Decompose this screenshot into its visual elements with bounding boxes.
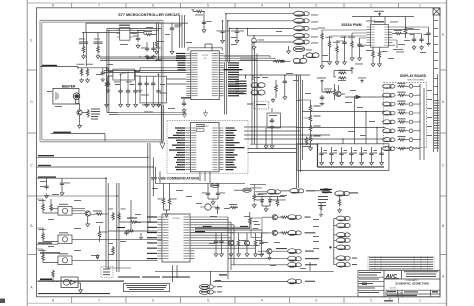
MCU inner pin text right [212, 53, 218, 96]
flag pair B [293, 58, 307, 63]
resistor R42 [333, 41, 340, 60]
right zone ticks [440, 70, 447, 255]
svg-text:ST7 USB COMMUNICATIONS: ST7 USB COMMUNICATIONS [151, 177, 200, 181]
flag QG1 [288, 249, 314, 254]
wire to pair [282, 60, 291, 62]
usb left wire stubs [180, 128, 186, 170]
usb right labels [226, 127, 245, 170]
beeper box [53, 85, 80, 105]
resistor R2 [77, 64, 85, 77]
USB IC U2 [190, 123, 219, 172]
bottom long wires [155, 262, 334, 276]
wire row4 [228, 258, 288, 260]
wire [153, 23, 157, 39]
MCU top loop wire [188, 44, 222, 51]
spare gates label [40, 252, 60, 253]
long wire w1 [303, 111, 386, 113]
transistor QC1 [228, 233, 233, 257]
net entry F_GND [37, 242, 59, 244]
net flag F3 [294, 26, 310, 31]
net entry AC_POWER [37, 176, 108, 178]
relay box [251, 218, 262, 237]
connector bar upper ticks [434, 20, 438, 95]
value specks [40, 15, 432, 269]
rev table [368, 256, 434, 270]
rail y196 [255, 197, 285, 199]
capacitor CB3 [124, 230, 133, 236]
cap pair CC3 [215, 206, 219, 215]
capacitor C45 [426, 27, 431, 46]
filter bus bar [318, 144, 385, 167]
ground C43 [412, 45, 416, 50]
svg-text:B: B [30, 224, 32, 228]
opto U7 [58, 253, 72, 264]
ground spare [78, 283, 83, 293]
logo [385, 274, 400, 280]
diode DC1 [256, 198, 264, 203]
section box ST7 USB [167, 120, 248, 173]
pwm misc text [355, 21, 404, 65]
net entry y157 [37, 155, 149, 157]
chain flag 6 [336, 256, 357, 261]
spare resistor [52, 270, 55, 282]
svg-text:A-0168: A-0168 [390, 287, 396, 290]
ground R47 [378, 62, 382, 67]
svg-text:6: 6 [152, 4, 154, 8]
display board dashed box [384, 83, 427, 148]
resistor RC5 [229, 204, 238, 209]
flag QG4 [288, 230, 316, 235]
rail y75 [237, 75, 310, 188]
resistor R40 [318, 28, 325, 65]
capacitor C41 [357, 38, 361, 56]
section box ST7 microcontroller [40, 20, 163, 142]
vcc arrow drv [351, 68, 354, 71]
capacitor CC5 [219, 233, 223, 257]
dashed opt box BL [101, 266, 113, 277]
capacitor CX1 [141, 42, 149, 58]
usb left labels [168, 127, 185, 170]
svg-text:1: 1 [419, 299, 421, 303]
flag row5 [288, 262, 317, 267]
svg-text:ST72F: ST72F [202, 55, 209, 57]
cap CF2 [329, 147, 337, 165]
junction dots rails [105, 56, 378, 197]
ground R41 [328, 60, 332, 65]
display row 1 [383, 83, 420, 89]
resistor RB9 [108, 243, 114, 255]
net AC_FAIL [51, 132, 105, 141]
MCU inner pin text left [192, 53, 198, 96]
ground ladder [309, 146, 313, 151]
resistor R47 below [378, 47, 387, 62]
ground R43 [350, 56, 354, 61]
wire bus right of box1 [159, 15, 185, 60]
spare net entry [37, 279, 62, 283]
chain flag 4 [336, 238, 350, 243]
resistor RE1 [271, 80, 277, 102]
cap CF6 [369, 147, 377, 165]
zone letters left [30, 39, 33, 290]
ground drops E2 [270, 128, 274, 149]
E text rows [236, 81, 247, 95]
resistor R23 [94, 42, 103, 54]
buffer arrow [345, 95, 386, 99]
svg-text:8: 8 [52, 4, 54, 8]
resistor RE4 [322, 84, 336, 100]
flag QG2 [288, 256, 319, 261]
vertical bus E [299, 75, 303, 188]
transistor QB1 [72, 211, 90, 216]
opto U6 [58, 232, 72, 243]
ladder top wire [299, 100, 311, 118]
wire osc out [130, 31, 144, 37]
vertical bundle [226, 14, 230, 62]
net entry y167 [37, 165, 154, 167]
rail to flag 5 [252, 41, 293, 43]
feedback ladder resistor RL2 [309, 114, 320, 123]
capacitor CR3 [133, 71, 137, 108]
svg-text:3525A PWM: 3525A PWM [341, 23, 361, 27]
resistor R6 [82, 109, 89, 118]
long wire w3 [343, 139, 386, 144]
speck CX [146, 58, 162, 61]
capacitor C12 [132, 31, 140, 42]
capacitor C40 [341, 36, 347, 60]
usb IC pin text [191, 128, 217, 170]
top zone ticks [72, 3, 399, 8]
zone numbers top [52, 4, 421, 8]
capacitor CR2 [126, 72, 135, 107]
display row 6 [383, 127, 420, 133]
arrow R22 [82, 54, 86, 59]
chain flag 1 [336, 216, 350, 221]
ground CC1 [208, 197, 218, 205]
circle comp QC0 [200, 204, 216, 210]
right connector column [434, 15, 438, 152]
resistor R3 [86, 64, 93, 77]
resistor RB1 [39, 199, 59, 213]
J labels [318, 196, 328, 206]
cap CF3 [339, 147, 347, 165]
capacitor CE2 [270, 108, 275, 129]
annotation text row [118, 276, 190, 277]
resistor RC2 [164, 183, 177, 210]
resistor RJ1 [319, 203, 322, 217]
PWM pins [367, 27, 393, 45]
wire row5 [231, 264, 288, 266]
arrow R23 [96, 54, 100, 59]
bottom zone ticks [72, 297, 399, 303]
triple bus [195, 226, 262, 230]
vcc arrow E [317, 78, 326, 85]
zone numbers bottom [52, 299, 421, 303]
top chain flag [335, 191, 358, 196]
regulator pins [108, 72, 140, 77]
display row 7 [383, 136, 420, 142]
flag QG3 [288, 215, 311, 220]
USB IC pins right [219, 128, 224, 170]
shunt ref D3 [252, 35, 264, 50]
inner bus box left [107, 29, 109, 113]
ground C1 [170, 50, 174, 55]
feedback ladder resistor RL4 [309, 100, 320, 146]
flag BC2 [234, 188, 251, 192]
net flag F1 [294, 11, 310, 16]
resistor R25 [144, 31, 153, 36]
resistor R22 [79, 42, 88, 54]
label U9 [119, 25, 130, 26]
note box [124, 284, 170, 292]
resistor RB2 [50, 199, 58, 212]
svg-text:3: 3 [315, 4, 317, 8]
chain flag 5 [336, 245, 350, 250]
junction dots center [225, 13, 248, 29]
capacitor CB1 [40, 178, 49, 198]
filter rail [250, 143, 318, 145]
capacitor C8 [144, 81, 148, 107]
resistor RD1 [338, 70, 347, 74]
net label entry [280, 60, 285, 63]
cap CF7 [379, 147, 383, 165]
ground C12 [136, 44, 140, 49]
ground R11 [139, 233, 142, 240]
feed wire left [250, 184, 266, 207]
resistor RC7 [237, 233, 246, 257]
bottom note line 2 [38, 293, 110, 294]
ground R48 [371, 62, 375, 67]
flag pair E1 [251, 83, 265, 88]
svg-text:SCHEMATIC: SCHEMATIC [406, 279, 419, 282]
corner blot bottom-left [0, 299, 5, 304]
svg-text:8: 8 [52, 299, 54, 303]
svg-text:E: E [442, 33, 444, 37]
cap CF4 [349, 147, 357, 165]
labels left of chain flag [320, 189, 332, 193]
beeper resistors text [91, 109, 100, 120]
net flag F6 [293, 46, 305, 51]
title block [358, 271, 440, 297]
MCU right wide labels [224, 69, 248, 94]
filter box [297, 144, 389, 171]
resistor R45 [392, 30, 405, 35]
capacitor CR4 [156, 74, 165, 107]
MCU U1 [191, 51, 219, 100]
MCU right net labels [228, 62, 239, 96]
resistor RB8 [118, 209, 126, 221]
driver loop box [334, 71, 352, 77]
svg-text:BEEPER: BEEPER [62, 85, 76, 89]
capacitor C20 [217, 20, 230, 43]
diode DB1 [91, 254, 99, 259]
net flag F2 [294, 18, 310, 23]
capacitor CC2 [216, 183, 225, 196]
reset box [140, 76, 167, 103]
ground drops E [264, 128, 268, 149]
wire rail y32.5 [82, 23, 120, 45]
resistor RF1 [303, 137, 311, 147]
net flag F5 [294, 40, 310, 45]
resistor R41 [326, 36, 333, 60]
display row 4 [383, 110, 420, 116]
feedback ladder resistor RL3 [309, 124, 320, 133]
chain diamond [329, 246, 332, 249]
zone letters right [442, 33, 445, 279]
wire y232.5 [190, 232, 268, 234]
text rows above diodes [258, 193, 279, 194]
cap CF1 [319, 147, 327, 165]
ground C44 [420, 45, 424, 50]
long rails left of MCU [100, 57, 186, 61]
center vertical bundle [147, 143, 155, 232]
capacitor C5 [100, 68, 105, 82]
resistor RB4 [39, 249, 59, 263]
flag row G1 [267, 189, 280, 194]
PWM IC U10 [371, 21, 389, 47]
display row 3 [383, 101, 420, 107]
resistor RB6 [98, 226, 107, 242]
ground R2 R3 [80, 78, 90, 83]
display row 5 [383, 118, 420, 124]
supply tee R C [192, 10, 212, 33]
flag pair E2 [251, 90, 265, 95]
transistor QD1 [336, 85, 345, 97]
net stub PWR entry [40, 65, 79, 69]
resistor RD2 [338, 77, 347, 81]
usb sub box [196, 124, 205, 131]
display row 2 [383, 92, 420, 98]
USB IC pins left [186, 128, 191, 170]
capacitor C44 [419, 34, 428, 43]
capacitor C21 [231, 28, 244, 43]
resistor R48 below [372, 47, 375, 62]
ground arrow near F6 [287, 46, 291, 54]
resistor R30 [273, 60, 282, 62]
diode DC2 [268, 198, 277, 203]
resistor RB5 [90, 211, 108, 216]
capacitor CC6 [259, 233, 263, 257]
page edge bottom [27, 302, 447, 304]
descending wires below MCU-right [225, 62, 227, 115]
long wire w2 [297, 127, 386, 129]
MCU right rails [224, 56, 281, 61]
capacitor CC4 [214, 233, 218, 257]
resistor RE3 [322, 84, 333, 93]
inner bus box bottom [107, 113, 118, 115]
reg output rails [104, 71, 186, 73]
capacitor CX2 [151, 42, 160, 58]
svg-text:SCHEMATIC, OZONE 750W: SCHEMATIC, OZONE 750W [395, 282, 429, 286]
svg-text:2: 2 [370, 299, 372, 303]
MCU pins right [219, 54, 224, 96]
transistor QG4 [262, 230, 289, 235]
under-frame text M2 [384, 297, 393, 302]
capacitor C1 bulk [170, 23, 182, 49]
capacitor CE3 [320, 95, 325, 106]
vcc arrow drv2 [358, 78, 366, 84]
cap CF5 [359, 147, 367, 165]
chain vertical wire [334, 219, 336, 265]
rail below box2 [155, 172, 245, 184]
capacitor CC1 [202, 183, 210, 196]
display right bus [420, 84, 424, 160]
spare IC [61, 277, 78, 288]
resistor R10 into IC [119, 218, 158, 224]
svg-text:5: 5 [207, 299, 209, 303]
wire pwr vertical [85, 33, 87, 67]
capacitor C9 [151, 81, 155, 107]
regulator IC [113, 69, 134, 80]
svg-text:2: 2 [370, 4, 372, 8]
svg-text:1: 1 [419, 4, 421, 8]
lower IC pin text [163, 217, 189, 259]
rail to flag 2 [228, 20, 293, 22]
resistor RR1 [105, 68, 109, 107]
rail to flag 3 [230, 27, 293, 29]
ground RC1 [165, 210, 169, 217]
bus horiz links [37, 196, 163, 268]
transistor QG1 [258, 248, 288, 260]
pwm right wires [392, 27, 428, 48]
rail to flag 1 [226, 13, 294, 15]
ground QB1 [86, 216, 90, 227]
pwm top rail [352, 17, 414, 27]
flag pair A [306, 53, 319, 58]
svg-text:4: 4 [261, 4, 263, 8]
resistor RC6 [249, 212, 252, 228]
resistor RC1 [158, 183, 165, 210]
capacitor CE1 [283, 79, 287, 100]
input wire [78, 68, 186, 72]
chain flag 2 [336, 223, 350, 228]
net flag F4 [294, 33, 310, 38]
vertical bundles right of IC [228, 217, 234, 279]
oscillator IC U3 [117, 27, 133, 40]
resistor R26 [155, 40, 164, 49]
ground R26 [155, 50, 159, 55]
reset wires [141, 79, 186, 95]
dashed option box [247, 102, 269, 109]
flag BC1 [211, 183, 220, 187]
wires right of lower IC [195, 217, 261, 248]
filter feed wires [248, 149, 297, 153]
svg-text:E: E [30, 39, 32, 43]
svg-text:L4931: L4931 [121, 73, 127, 75]
resistor RC8 [254, 233, 263, 257]
chain flag 3 [336, 233, 350, 238]
sub box E [267, 113, 280, 128]
chain flag 7 [336, 262, 357, 267]
svg-text:ST7 MICROCONTROLLER CIRCUIT: ST7 MICROCONTROLLER CIRCUIT [118, 13, 180, 17]
svg-text:DISPLAY BOARD: DISPLAY BOARD [400, 74, 427, 78]
wire rail y23 [86, 22, 188, 24]
lower IC left labels [147, 216, 157, 259]
svg-text:7: 7 [98, 299, 100, 303]
page edge right [446, 0, 448, 306]
resistor R11 into IC [108, 227, 157, 232]
opto U5 [58, 204, 72, 215]
ground C41 [358, 56, 362, 61]
transistor QC2 [244, 233, 249, 257]
svg-text:74HC595 BOARD: 74HC595 BOARD [407, 79, 425, 82]
ground R42 [335, 60, 339, 65]
capacitor CB2 [60, 178, 70, 195]
capacitor C6 [106, 76, 111, 92]
lower IC pins [158, 217, 195, 259]
svg-text:B: B [442, 224, 444, 228]
svg-text:3: 3 [315, 299, 317, 303]
svg-text:5: 5 [207, 4, 209, 8]
